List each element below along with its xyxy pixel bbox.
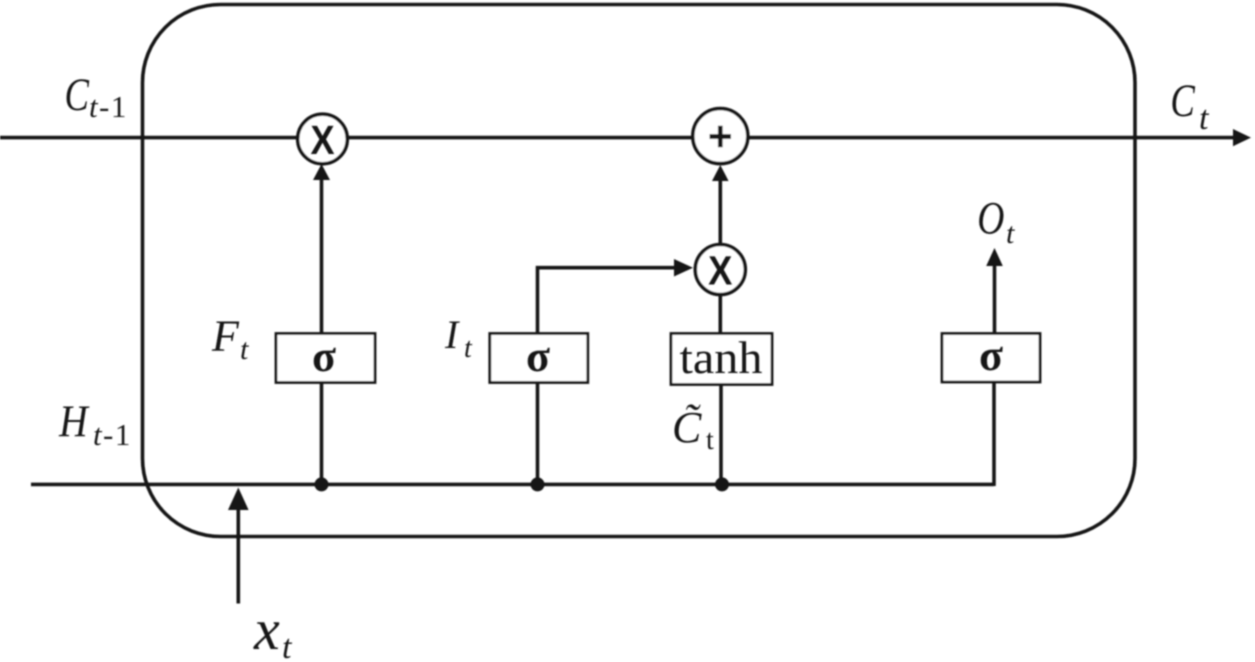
wire: elbow from sigma2 top to X2 with arrowhead: [538, 268, 677, 334]
svg-text:t: t: [706, 425, 714, 456]
svg-text:tanh: tanh: [680, 333, 763, 383]
wire: sigma1 down to H line: [320, 383, 324, 486]
arrowhead of C_t output: [1233, 129, 1251, 146]
sigma box I (input gate): [490, 334, 588, 383]
add node + on C line: [693, 109, 748, 164]
wire: X2 up to + circle with arrowhead: [718, 180, 722, 243]
wire: tanh down to H line: [719, 385, 723, 486]
multiply node X1 on C line: [298, 114, 348, 164]
sigma box O (output gate): [942, 334, 1040, 383]
svg-text:I: I: [444, 312, 460, 357]
wire: X2 down to tanh box: [718, 295, 722, 334]
svg-text:C: C: [1170, 75, 1195, 127]
svg-text:x: x: [253, 597, 280, 662]
svg-text:F: F: [211, 312, 240, 361]
wire: forget-gate vertical (sigma1 up to X1) with arrowhead: [320, 178, 324, 334]
sigma box F (forget gate): [276, 334, 375, 383]
svg-text:C: C: [64, 69, 89, 121]
svg-text:X: X: [708, 248, 732, 294]
svg-text:-1: -1: [99, 89, 128, 124]
junction dot on H line (forget branch): [315, 477, 329, 491]
svg-text:t: t: [464, 333, 473, 364]
svg-text:X: X: [310, 118, 334, 164]
wire: sigma4 (output gate) up arrow to O_t: [993, 264, 997, 334]
LSTM cell boundary (rounded box): [143, 5, 1136, 537]
svg-text:σ: σ: [979, 331, 1003, 380]
svg-text:σ: σ: [312, 332, 336, 381]
svg-text:t: t: [89, 89, 99, 124]
wire: sigma4 down to end of H line: [992, 382, 996, 486]
svg-text:O: O: [977, 193, 1004, 245]
wire: cell-state line C (top horizontal): [0, 136, 1235, 140]
tanh box: [671, 334, 772, 385]
svg-text:t: t: [240, 333, 249, 366]
svg-text:-1: -1: [103, 417, 132, 452]
svg-text:t: t: [1006, 217, 1015, 250]
junction dot on H line (candidate branch): [715, 477, 729, 491]
svg-text:t: t: [93, 417, 103, 452]
svg-text:σ: σ: [526, 332, 550, 381]
svg-text:C̃: C̃: [672, 403, 702, 452]
wire: hidden-state line H (bottom horizontal): [31, 483, 994, 487]
junction dot on H line (input branch): [531, 477, 545, 491]
svg-text:t: t: [282, 629, 293, 662]
wire: sigma2 down to H line: [536, 383, 540, 486]
svg-text:t: t: [1199, 100, 1210, 137]
svg-text:H: H: [58, 397, 90, 447]
plus symbol: [710, 126, 732, 147]
multiply node X2 (input gate product): [695, 245, 745, 295]
wire: x_t input arrow up to H line: [237, 505, 241, 604]
